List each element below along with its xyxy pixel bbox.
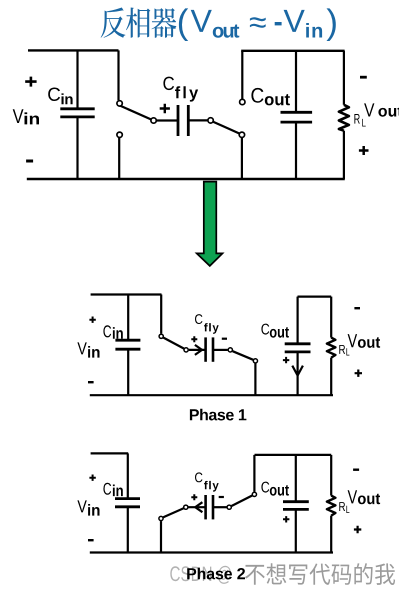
resistor RL (load): [339, 51, 349, 179]
capacitor Cfly: [178, 105, 188, 136]
phase2 label + (Vin): [89, 475, 95, 481]
phase2 label - (Vin): [88, 539, 94, 541]
label Vin: [13, 109, 39, 124]
label + (Vin positive): [25, 77, 36, 87]
phase2 wire top-right rail: [255, 454, 332, 456]
phase1 wire top-left rail: [91, 293, 162, 295]
title chinese 反相器: [101, 8, 177, 38]
phase2 label + (Cfly): [191, 494, 197, 500]
label + (Vout positive): [359, 146, 369, 155]
phase2 label Vin: [77, 500, 99, 515]
label Cfly: [163, 77, 198, 102]
phase2 switch S1 closed to ground: [159, 505, 188, 552]
label Vout (clipped): [364, 103, 399, 116]
wire: top-right rail: [241, 50, 344, 52]
wire: bottom ground rail: [27, 178, 345, 180]
wire: top-left rail: [28, 49, 119, 51]
phase1 label RL: [339, 345, 349, 356]
phase2 capacitor Cin: [115, 453, 140, 552]
green down arrow: [197, 182, 223, 266]
phase2 capacitor Cout: [283, 455, 309, 553]
phase2 label Cout: [261, 482, 289, 496]
watermark CSDN @: [170, 566, 231, 584]
phase1 wire bottom rail: [90, 394, 333, 396]
wire: Cfly to S2: [188, 119, 208, 121]
phase2 label Cfly: [195, 472, 219, 491]
phase2 label - (Vout): [353, 469, 359, 471]
phase1 capacitor Cin: [115, 295, 140, 396]
phase1 capacitor Cout with discharge arrow: [285, 297, 311, 396]
phase1 label Cin: [103, 325, 122, 338]
capacitor Cout: [281, 51, 313, 179]
wire: S1 pole to Cfly: [156, 119, 178, 121]
label Phase 1: [190, 409, 247, 421]
phase2 wire Cfly to S2: [213, 506, 227, 508]
phase2 resistor RL: [327, 455, 336, 553]
label Cout: [251, 88, 290, 106]
label RL: [354, 114, 365, 127]
phase2 label + (Vout): [354, 526, 361, 533]
label - (Vin negative): [26, 160, 33, 163]
phase1 label - (Vin): [88, 381, 94, 383]
phase1 label Vout: [348, 334, 381, 348]
switch S2 (SPDT right, closed to ground): [208, 51, 245, 179]
phase2 label Cin: [103, 483, 122, 496]
switch S1 (SPDT left, closed to Vin): [117, 50, 156, 179]
label - (Vout negative, top): [360, 76, 367, 79]
phase1 resistor RL: [327, 297, 336, 396]
title formula (Vout approx -Vin): [179, 8, 336, 41]
phase1 label + (Cfly): [191, 336, 197, 342]
phase2 wire bottom rail: [90, 551, 333, 553]
label Phase 2: [187, 568, 245, 580]
watermark 不想写代码的我: [245, 563, 395, 585]
phase1 label - (Vout): [354, 307, 360, 309]
phase1 switch S1 closed to Vin: [159, 295, 188, 353]
phase2 switch S2 closed to Vout: [227, 455, 256, 509]
phase1 label Vin: [77, 342, 99, 357]
phase1 label Cout: [261, 324, 289, 338]
label Cin: [48, 88, 72, 105]
phase2 capacitor Cfly: [206, 495, 213, 519]
phase2 label + (Cout): [283, 516, 289, 522]
label + (Cfly): [160, 104, 170, 113]
phase2 wire top-left rail: [91, 452, 129, 454]
phase2 wire with current arrow out of Cfly: [188, 502, 204, 512]
phase2 label Vout: [348, 490, 381, 504]
phase1 wire Cfly to S2: [213, 349, 228, 351]
phase1 label + (Vout): [355, 370, 362, 377]
phase1 label Cfly: [195, 314, 219, 334]
phase2 label - (Cfly): [219, 496, 224, 498]
capacitor Cin: [60, 50, 94, 179]
phase1 label - (Cfly): [222, 338, 227, 340]
phase1 label + (Cout): [283, 357, 289, 363]
phase1 switch S2 closed to ground: [228, 348, 257, 395]
phase1 capacitor Cfly: [206, 337, 213, 361]
phase2 label RL: [339, 502, 349, 513]
phase1 label + (Vin): [89, 317, 95, 323]
phase1 wire with current arrow into Cfly: [189, 345, 205, 355]
phase1 wire top-right rail: [298, 296, 332, 298]
